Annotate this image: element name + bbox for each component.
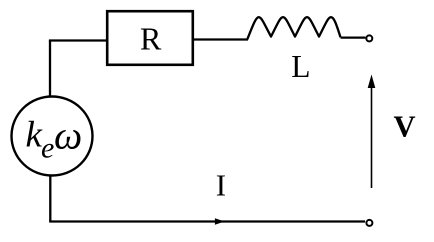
svg-text:k: k	[26, 115, 43, 156]
wire inductor to top terminal	[341, 36, 366, 38]
label R	[140, 21, 162, 57]
wire resistor to inductor	[194, 38, 248, 40]
resistor R1 box	[107, 11, 193, 65]
label ke	[26, 115, 55, 165]
wire top horizontal to resistor	[49, 39, 106, 41]
label omega	[54, 113, 82, 158]
svg-text:e: e	[41, 132, 54, 165]
svg-text:L: L	[291, 49, 310, 84]
arrow I head on bottom wire	[215, 218, 225, 225]
label L	[291, 49, 310, 84]
svg-text:ω: ω	[54, 113, 82, 158]
svg-text:I: I	[216, 168, 226, 203]
source U1 ke*omega circle	[12, 97, 93, 176]
svg-text:V: V	[394, 110, 416, 144]
terminal top open circle	[366, 35, 372, 41]
wire source top to corner	[49, 41, 51, 98]
terminal bottom open circle	[366, 220, 372, 226]
label V	[394, 110, 416, 144]
svg-text:R: R	[140, 21, 162, 57]
arrow V line	[368, 75, 376, 189]
label I	[216, 168, 226, 203]
wire source bottom to corner	[49, 175, 51, 222]
wire bottom horizontal	[49, 220, 365, 222]
inductor L1 coil	[247, 17, 340, 39]
